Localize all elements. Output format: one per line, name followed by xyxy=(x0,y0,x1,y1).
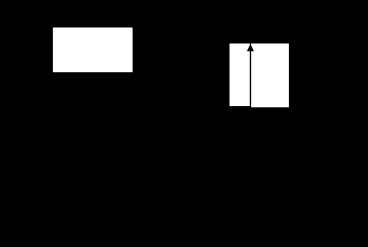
block A (upper-left white rectangle) xyxy=(53,28,133,73)
block B (right white rectangle, right half) xyxy=(251,44,289,108)
arrow stem (vertical line inside block B) xyxy=(250,51,252,108)
arrowhead (upward triangle at top of block B) xyxy=(247,44,254,52)
block B (right white rectangle, left half) xyxy=(230,44,250,107)
